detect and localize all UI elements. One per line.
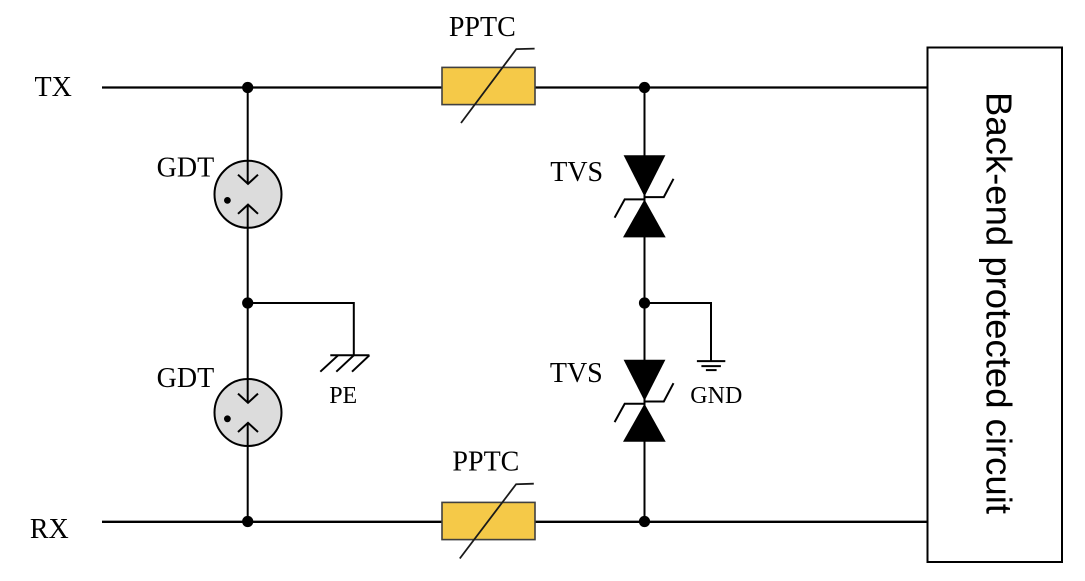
- junction node TX-TVS: [639, 82, 650, 93]
- PE earth symbol: [320, 355, 369, 371]
- junction node TX-GDT: [242, 82, 253, 93]
- svg-text:TVS: TVS: [550, 358, 603, 389]
- TVS diode upper (bidirectional): [615, 155, 674, 237]
- svg-text:PPTC: PPTC: [452, 446, 519, 477]
- wire GND branch: [645, 303, 712, 361]
- junction node TVS-GND: [639, 297, 650, 308]
- svg-text:TVS: TVS: [550, 157, 603, 188]
- wire left vertical TX-to-GDT1: [247, 87, 249, 184]
- TVS diode lower (bidirectional): [615, 360, 674, 442]
- PPTC fuse lower (RX line): [442, 484, 535, 559]
- svg-text:RX: RX: [30, 514, 69, 545]
- wire RX horizontal: [102, 521, 928, 523]
- GDT tube upper (TX side): [215, 161, 282, 228]
- svg-text:GDT: GDT: [157, 153, 215, 184]
- svg-text:PE: PE: [329, 383, 357, 409]
- PPTC fuse upper (TX line): [442, 49, 535, 123]
- junction node RX-GDT: [242, 516, 253, 527]
- junction node RX-TVS: [639, 516, 650, 527]
- GND ground symbol: [697, 361, 725, 370]
- wire TX horizontal: [102, 86, 928, 88]
- wire left vertical GDT2-to-RX: [247, 423, 249, 521]
- wire PE branch: [248, 303, 354, 355]
- junction node GDT-PE: [242, 297, 253, 308]
- wire right vertical TX-to-TVS1: [644, 87, 646, 522]
- svg-text:GDT: GDT: [157, 363, 215, 394]
- wire left vertical GDT1-to-GDT2: [247, 205, 249, 403]
- svg-text:GND: GND: [690, 383, 742, 409]
- back-end protected circuit block: [928, 48, 1063, 563]
- svg-text:Back-end protected circuit: Back-end protected circuit: [978, 92, 1019, 514]
- svg-text:TX: TX: [35, 72, 72, 103]
- svg-text:PPTC: PPTC: [449, 12, 516, 43]
- GDT tube lower (RX side): [215, 379, 282, 446]
